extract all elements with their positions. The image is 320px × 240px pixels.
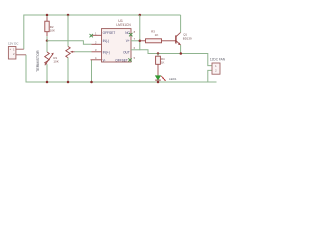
no-connect X pin5: [128, 58, 131, 61]
pin 1 OFFSET: [92, 34, 102, 36]
connector CON2 12DC FAN: [210, 58, 226, 75]
junction top rail at pot: [67, 14, 70, 17]
junction R4 top: [157, 52, 160, 55]
node A junction: [46, 39, 49, 42]
svg-text:V-: V-: [103, 58, 106, 62]
junction top rail at V+ drop: [139, 14, 142, 17]
op-amp U1 LM741CN: [91, 19, 140, 62]
junction GND at LED: [157, 81, 160, 84]
pin 3 IN(+): [92, 51, 102, 53]
svg-text:OFFSET: OFFSET: [115, 58, 128, 62]
transistor Q1 BD139: [176, 15, 192, 54]
no-connect X pin1: [90, 34, 93, 37]
svg-text:OUT: OUT: [123, 50, 130, 54]
junction top rail at R2: [46, 14, 49, 17]
connector CON1 12V DC: [8, 42, 26, 59]
wire bottom GND rail: [26, 55, 217, 82]
wire V- pin4 to GND: [91, 60, 93, 82]
junction emitter: [180, 52, 183, 55]
junction GND at pot: [67, 81, 70, 84]
resistor R4: [156, 54, 165, 76]
wire V+ drop: [139, 15, 141, 50]
junction V+ / R3: [139, 40, 142, 43]
wire OUT bus to fan: [140, 50, 213, 66]
pin 4 V-: [91, 59, 102, 61]
pin 7 V+: [131, 40, 140, 42]
LED1: [155, 76, 177, 82]
wire node A to IN(-) pin2: [47, 41, 92, 45]
resistor R3: [140, 30, 176, 43]
svg-text:10K: 10K: [50, 28, 55, 32]
resistor R2: [45, 15, 55, 41]
wire pot wiper to IN(+) pin3: [75, 51, 92, 53]
svg-text:V+: V+: [126, 39, 130, 43]
svg-text:IN(+): IN(+): [103, 50, 110, 54]
svg-text:LM741CN: LM741CN: [116, 23, 131, 27]
wire fan pin2 to GND: [208, 70, 212, 82]
no-connect X pin8: [129, 33, 132, 36]
svg-text:1K: 1K: [155, 33, 159, 37]
svg-text:IN(-): IN(-): [103, 39, 109, 43]
wire top +12V rail: [24, 15, 181, 49]
svg-text:BD139: BD139: [183, 36, 192, 40]
svg-text:12V DC: 12V DC: [8, 42, 19, 46]
svg-text:TERMISTOR: TERMISTOR: [36, 50, 40, 72]
svg-text:LED1: LED1: [169, 77, 177, 81]
thermistor R1: [36, 41, 59, 82]
junction GND at thermistor: [46, 81, 49, 84]
svg-text:OFFSET: OFFSET: [103, 31, 116, 35]
svg-text:1K: 1K: [161, 61, 165, 65]
potentiometer RV1: [66, 15, 75, 82]
svg-text:12DC FAN: 12DC FAN: [210, 58, 226, 62]
pin 2 IN(-): [92, 43, 102, 45]
pin 6 OUT: [131, 49, 140, 51]
junction GND at V-: [90, 81, 93, 84]
svg-text:10K: 10K: [53, 59, 58, 63]
